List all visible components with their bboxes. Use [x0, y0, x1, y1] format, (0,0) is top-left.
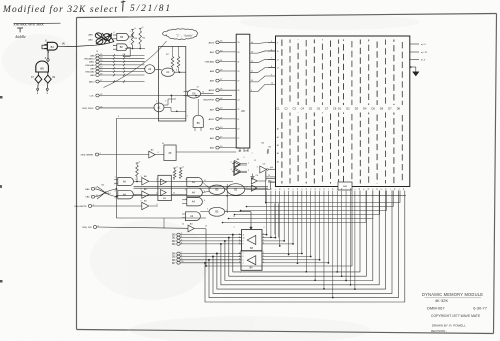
- svg-text:A2: A2: [277, 144, 279, 147]
- svg-text:KHI38KK 38VK 38KK: KHI38KK 38VK 38KK: [13, 22, 45, 26]
- input connector phi MEMR: [95, 153, 98, 156]
- svg-text:+5: +5: [141, 27, 143, 29]
- wire: [104, 41, 167, 88]
- wire DI1 bus staple: [229, 191, 367, 277]
- input connector DI0: [177, 233, 180, 236]
- memory chip C4: [305, 40, 307, 184]
- svg-text:D8: D8: [397, 106, 401, 110]
- wire DI3 bus staple: [221, 191, 379, 285]
- svg-text:#966;AB0: #966;AB0: [204, 60, 214, 63]
- svg-text:5: 5: [187, 116, 188, 118]
- twin buffers under A5: [235, 161, 241, 167]
- wire: [47, 50, 49, 59]
- wire DI6 bus staple: [209, 191, 398, 298]
- gate B6 (hand drawn): [36, 61, 49, 72]
- svg-text:11: 11: [277, 59, 279, 61]
- svg-text:A0: A0: [277, 128, 279, 131]
- wire: [156, 180, 233, 182]
- svg-text:8: 8: [204, 191, 205, 193]
- svg-text:CLK: CLK: [89, 96, 94, 98]
- power +12 pin: [410, 51, 419, 53]
- svg-text:9: 9: [185, 190, 186, 192]
- wire: [155, 68, 162, 71]
- svg-text:(4): (4): [62, 41, 65, 45]
- svg-text:3: 3: [239, 236, 240, 238]
- svg-text:9: 9: [243, 241, 244, 243]
- svg-text:4: 4: [156, 192, 157, 194]
- svg-text:5: 5: [239, 243, 240, 245]
- svg-text:#966;RF5H: #966;RF5H: [203, 100, 215, 102]
- svg-text:1: 1: [234, 227, 235, 229]
- wire: [262, 237, 275, 239]
- wire: [239, 259, 242, 261]
- svg-text:D2: D2: [346, 106, 350, 110]
- wire: [174, 71, 186, 73]
- gate B6 vertical: [193, 115, 203, 127]
- input connector DI2: [177, 240, 180, 243]
- svg-text:+5: +5: [182, 166, 184, 168]
- svg-text:2: 2: [156, 179, 157, 181]
- wire: [37, 83, 39, 88]
- svg-text:D7: D7: [388, 106, 392, 110]
- svg-text:8: 8: [293, 189, 294, 191]
- wire: [144, 67, 146, 69]
- svg-text:14: 14: [251, 42, 253, 44]
- buffer A3 row3: [142, 202, 149, 209]
- svg-text:1: 1: [143, 62, 144, 64]
- wire DI0 bus staple: [233, 191, 360, 272]
- svg-text:4: 4: [337, 189, 338, 191]
- wire: [202, 182, 209, 188]
- wire: [277, 204, 279, 238]
- svg-text:14: 14: [319, 189, 321, 191]
- svg-text:10: 10: [243, 237, 245, 239]
- svg-text:15: 15: [96, 51, 98, 53]
- svg-text:8: 8: [246, 187, 247, 189]
- svg-text:10: 10: [363, 189, 365, 191]
- wire: [250, 42, 276, 45]
- svg-text:1: 1: [248, 163, 249, 165]
- input connector AB3: [216, 127, 219, 130]
- svg-text:4K·32K: 4K·32K: [435, 298, 449, 303]
- svg-text:19: 19: [268, 175, 270, 177]
- IC U-A5 multiplexer: [236, 34, 250, 148]
- resistor R4 diagonal: [267, 149, 269, 154]
- svg-text:12: 12: [251, 61, 253, 63]
- wire: [262, 234, 267, 236]
- svg-text:5: 5: [115, 198, 116, 200]
- svg-text:4: 4: [239, 240, 240, 242]
- svg-text:2: 2: [263, 262, 264, 264]
- wire: [262, 262, 328, 264]
- wire: [262, 243, 293, 245]
- wire DI7 bus staple: [205, 191, 405, 303]
- wire: [144, 64, 146, 66]
- input connector DI3: [177, 243, 180, 246]
- svg-text:34: 34: [237, 42, 239, 44]
- wire: [132, 45, 134, 49]
- svg-text:11: 11: [254, 160, 256, 162]
- svg-text:#966;4: #966;4: [105, 193, 112, 195]
- input connector CLK: [96, 94, 99, 97]
- svg-text:10: 10: [251, 80, 253, 82]
- connector cluster scribble: [95, 33, 114, 44]
- input connector phi XRLF: [96, 107, 99, 110]
- svg-text:13: 13: [185, 179, 187, 181]
- svg-text:DYNAMIC MEMORY MODULE: DYNAMIC MEMORY MODULE: [422, 292, 483, 297]
- svg-text:D1: D1: [338, 106, 342, 110]
- memory chip C3: [297, 40, 299, 184]
- svg-text:#966; MEMR: #966; MEMR: [80, 155, 93, 157]
- memory chip C5: [313, 40, 315, 184]
- svg-text:C6: C6: [317, 106, 321, 110]
- wire: [314, 191, 316, 280]
- capacitor C4 to ground: [252, 174, 254, 177]
- svg-text:2: 2: [130, 41, 131, 43]
- wire: [115, 119, 117, 219]
- wire: [226, 184, 228, 213]
- wire: [279, 191, 281, 246]
- svg-text:◄ +5: ◄ +5: [421, 43, 427, 46]
- memory chip C1: [281, 40, 283, 184]
- svg-text:COPYRIGHT 1977 WAVE MATE: COPYRIGHT 1977 WAVE MATE: [431, 314, 481, 318]
- svg-text:C4: C4: [301, 106, 305, 110]
- svg-text:10: 10: [271, 167, 273, 169]
- svg-text:3: 3: [226, 210, 227, 212]
- svg-text:11: 11: [185, 199, 187, 201]
- input connector DI6: [177, 258, 180, 261]
- input connector DI7: [177, 261, 180, 264]
- gate A4 column3: [187, 198, 203, 206]
- svg-text:AB15: AB15: [209, 118, 215, 121]
- svg-text:12: 12: [277, 67, 279, 69]
- resistor R8: [177, 57, 180, 68]
- wire: [144, 61, 146, 63]
- svg-text:4: 4: [243, 263, 244, 265]
- svg-text:+5: +5: [176, 166, 178, 168]
- power +5 pin: [410, 43, 419, 45]
- svg-text:11: 11: [251, 71, 253, 73]
- svg-text:3: 3: [263, 259, 264, 261]
- connector diamond 47: [35, 75, 42, 83]
- svg-text:+5: +5: [134, 28, 136, 30]
- gate B3: [117, 33, 129, 40]
- svg-text:C8: C8: [333, 106, 337, 110]
- gate B2 pair: [251, 178, 257, 184]
- svg-text:B1: B1: [51, 45, 55, 49]
- svg-text:4: 4: [399, 189, 400, 191]
- svg-text:3: 3: [141, 176, 142, 178]
- wire: [200, 211, 209, 213]
- svg-text:"2" → "double": "2" → "double": [176, 35, 194, 38]
- svg-text:2: 2: [239, 233, 240, 235]
- svg-text:11: 11: [204, 180, 206, 182]
- svg-text:1: 1: [130, 31, 131, 33]
- wire: [134, 181, 142, 183]
- wire: [149, 180, 158, 182]
- wire: [44, 44, 47, 46]
- svg-text:8: 8: [354, 189, 355, 191]
- svg-text:9: 9: [244, 157, 245, 159]
- svg-text:8: 8: [239, 259, 240, 261]
- svg-text:10: 10: [301, 189, 303, 191]
- wire: [239, 253, 242, 255]
- wire: [176, 151, 236, 153]
- wire: [336, 191, 338, 272]
- svg-text:3: 3: [248, 170, 249, 172]
- svg-text:#966;AB10: #966;AB10: [84, 57, 96, 60]
- svg-text:4: 4: [165, 100, 166, 102]
- svg-text:DRAWN BY: R. POWELL: DRAWN BY: R. POWELL: [432, 323, 466, 327]
- svg-text:#966;AB2: #966;AB2: [85, 71, 95, 74]
- inverter C3: [260, 166, 267, 173]
- svg-text:24: 24: [237, 100, 239, 102]
- input connector DI1: [177, 236, 180, 239]
- input connector AB11: [96, 60, 99, 63]
- svg-text:RA5: RA5: [268, 179, 272, 182]
- input connector AB14: [216, 89, 219, 92]
- wire: [268, 59, 276, 61]
- memory chip D5: [376, 40, 378, 184]
- wire phi WRITE into array: [266, 178, 276, 180]
- wire: [274, 204, 276, 235]
- svg-text:C5: C5: [309, 106, 313, 110]
- svg-text:A4: A4: [277, 160, 279, 163]
- wire: [116, 217, 206, 219]
- wire: [270, 191, 272, 238]
- svg-text:C3: C3: [293, 106, 297, 110]
- svg-text:13: 13: [251, 51, 253, 53]
- note cloud: [163, 29, 198, 40]
- svg-text:6: 6: [204, 200, 205, 202]
- svg-text:C1: C1: [276, 106, 280, 110]
- svg-text:14: 14: [381, 189, 383, 191]
- wire: [239, 262, 242, 264]
- wire: [250, 59, 276, 62]
- svg-text:2: 2: [264, 227, 265, 229]
- input connector DI4: [177, 252, 180, 255]
- wire: [250, 84, 276, 91]
- input connector AB0: [216, 146, 219, 149]
- resistor R9: [136, 162, 139, 164]
- wire: [262, 256, 311, 258]
- wire address A5: [223, 191, 367, 223]
- wire: [116, 118, 186, 120]
- memory chip D7: [393, 40, 395, 184]
- svg-text:#966; XRLF: #966; XRLF: [82, 108, 94, 110]
- svg-text:6: 6: [118, 116, 119, 118]
- gate A4 column2: [187, 188, 203, 197]
- wire: [144, 57, 146, 59]
- svg-text:4: 4: [231, 169, 232, 171]
- twin buffers B4: [234, 162, 240, 168]
- buffer A3: [149, 151, 155, 158]
- svg-text:A3: A3: [277, 152, 279, 155]
- svg-text:#966;WRITE: #966;WRITE: [74, 206, 87, 208]
- svg-text:9: 9: [251, 90, 252, 92]
- svg-text:21: 21: [237, 119, 239, 121]
- input connector phi AB0: [216, 60, 219, 63]
- input connector AB13: [216, 41, 219, 44]
- power -5 pin: [410, 59, 419, 61]
- wire: [46, 83, 48, 88]
- svg-text:4: 4: [263, 255, 264, 257]
- memory chip D6: [385, 40, 387, 184]
- memory chip C2: [289, 40, 291, 184]
- svg-text:D6: D6: [380, 106, 384, 110]
- gate A4 column1: [187, 178, 203, 187]
- svg-text:6: 6: [226, 187, 227, 189]
- svg-text:6: 6: [284, 189, 285, 191]
- svg-text:2: 2: [115, 184, 116, 186]
- svg-text:9: 9: [263, 233, 264, 235]
- svg-text:14: 14: [182, 224, 184, 226]
- svg-text:#966; XIN: #966; XIN: [82, 227, 92, 229]
- input connector AB4: [96, 74, 99, 77]
- input connector AB1: [216, 137, 219, 140]
- wire DI5 bus staple: [213, 191, 392, 294]
- svg-text:8: 8: [157, 204, 158, 206]
- svg-text:6-30-77: 6-30-77: [473, 305, 488, 310]
- wire: [268, 67, 276, 69]
- svg-text:26: 26: [237, 90, 239, 92]
- handwritten note: Modified for 32K select 5/21/81: [2, 4, 170, 15]
- svg-text:#966;AB5: #966;AB5: [85, 64, 95, 67]
- resistor R11: [179, 170, 182, 179]
- svg-text:7: 7: [263, 240, 264, 242]
- wire: [268, 50, 276, 52]
- svg-text:Modified for 32K select: Modified for 32K select: [2, 4, 117, 15]
- svg-text:7: 7: [243, 253, 244, 255]
- buffer A3 row2: [142, 191, 149, 198]
- RAS tab on array bottom: [338, 182, 352, 190]
- wire: [265, 171, 267, 204]
- input connector RAS: [91, 187, 94, 190]
- wire RAS into array: [268, 181, 276, 183]
- wire: [349, 191, 351, 285]
- tee symbol: [18, 27, 23, 29]
- wire bus: [116, 195, 406, 197]
- svg-text:12: 12: [233, 216, 235, 218]
- wire: [239, 256, 242, 258]
- wire: [206, 191, 352, 267]
- wire: [258, 180, 267, 182]
- wire: [332, 191, 334, 298]
- svg-text:7: 7: [252, 153, 253, 155]
- svg-text:12: 12: [173, 179, 175, 181]
- svg-text:12: 12: [310, 189, 312, 191]
- svg-text:DMM-067: DMM-067: [427, 305, 445, 310]
- svg-text:05: 05: [162, 143, 164, 145]
- svg-text:6: 6: [346, 189, 347, 191]
- svg-text:13: 13: [197, 87, 199, 89]
- buffer block B3: [242, 230, 263, 251]
- connector diamond 81: [44, 75, 51, 83]
- gate A2: [145, 65, 155, 74]
- gate A6: [118, 177, 134, 185]
- wire: [341, 191, 343, 276]
- input connector AB12: [96, 80, 99, 83]
- gate B5: [209, 185, 225, 195]
- wire: [37, 72, 39, 76]
- svg-text:6: 6: [243, 256, 244, 258]
- svg-text:9: 9: [239, 262, 240, 264]
- wire bus: [134, 187, 269, 189]
- svg-text:6: 6: [263, 243, 264, 245]
- buffer block B3 left: [158, 175, 171, 200]
- svg-text:8: 8: [187, 91, 188, 93]
- input connector AB9: [96, 67, 99, 70]
- memory chip C6: [321, 40, 323, 184]
- svg-text:5: 5: [141, 189, 142, 191]
- wire address A3: [235, 191, 380, 215]
- input connector AB1: [216, 51, 219, 54]
- wire: [128, 36, 132, 38]
- svg-text:D3: D3: [355, 106, 359, 110]
- wire address A1: [247, 191, 394, 207]
- wire address A0: [266, 191, 400, 203]
- gate B1 (hand drawn NAND): [47, 42, 57, 50]
- svg-text:29: 29: [237, 71, 239, 73]
- svg-text:10: 10: [277, 51, 279, 53]
- svg-text:7: 7: [240, 272, 241, 274]
- input connector AB15: [216, 118, 219, 121]
- wire bus: [134, 185, 269, 187]
- resistor R10: [173, 170, 176, 179]
- svg-text:D5: D5: [372, 106, 376, 110]
- wire: [296, 191, 298, 263]
- wire: [185, 96, 187, 122]
- wire address A4: [229, 191, 373, 219]
- svg-text:9: 9: [114, 45, 115, 47]
- svg-text:A5: A5: [241, 109, 245, 113]
- wire: [323, 191, 325, 289]
- buffer A3 row1: [142, 178, 149, 185]
- svg-text:2: 2: [266, 189, 267, 191]
- wire: [288, 191, 290, 255]
- memory chip D2: [351, 40, 353, 184]
- memory chip C7: [330, 40, 332, 184]
- wire: [239, 243, 242, 245]
- wire: [163, 218, 165, 229]
- input connector AB7: [216, 108, 219, 111]
- input connector phi XIN: [93, 226, 96, 229]
- wire: [144, 54, 146, 56]
- svg-text:9: 9: [187, 96, 188, 98]
- svg-text:10: 10: [202, 92, 204, 94]
- svg-text:+5: +5: [138, 161, 140, 163]
- wire: [171, 180, 187, 182]
- gate B1 oval: [227, 184, 245, 196]
- svg-text:27: 27: [237, 81, 239, 83]
- svg-text:5: 5: [158, 66, 159, 68]
- svg-text:2: 2: [231, 162, 232, 164]
- svg-text:86: 86: [40, 66, 44, 70]
- svg-text:◄ +12: ◄ +12: [421, 51, 428, 54]
- input connector AB6: [96, 54, 99, 57]
- svg-text:◄ -5: ◄ -5: [421, 59, 427, 62]
- gate A2 column4: [185, 212, 200, 221]
- svg-text:9: 9: [277, 42, 278, 44]
- svg-text:AB12: AB12: [89, 81, 95, 84]
- wire: [268, 42, 276, 44]
- component box 05: [164, 145, 176, 161]
- input connector phi AB10: [96, 57, 99, 60]
- memory chip D1: [343, 40, 345, 184]
- svg-text:6: 6: [176, 69, 177, 71]
- svg-text:AB11: AB11: [89, 61, 95, 64]
- svg-text:31: 31: [237, 61, 239, 63]
